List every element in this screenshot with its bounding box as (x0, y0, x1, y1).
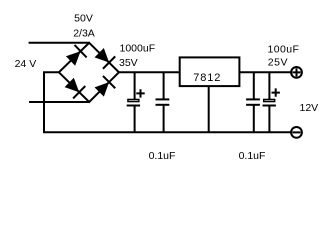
svg-text:1000uF: 1000uF (120, 43, 156, 55)
svg-text:50V: 50V (74, 12, 93, 24)
svg-text:100uF: 100uF (268, 44, 300, 56)
svg-text:0.1uF: 0.1uF (239, 150, 266, 162)
svg-text:2/3A: 2/3A (73, 27, 95, 39)
svg-text:25V: 25V (268, 57, 288, 69)
svg-text:0.1uF: 0.1uF (149, 150, 176, 162)
svg-text:12V: 12V (300, 102, 319, 114)
svg-text:35V: 35V (119, 57, 138, 69)
svg-text:24 V: 24 V (15, 58, 37, 70)
svg-text:7812: 7812 (193, 72, 221, 84)
